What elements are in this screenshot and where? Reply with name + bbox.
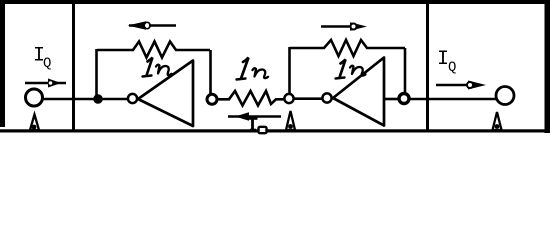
value label 1&#937; (feedback 1) xyxy=(143,58,172,77)
wire: A2 output to right terminal xyxy=(409,98,497,101)
resistor 1&#937; (feedback 1) xyxy=(97,42,210,58)
value label 1&#937; (series) xyxy=(237,58,269,80)
boundary line left (network box edge) xyxy=(72,3,75,131)
svg-text:Q: Q xyxy=(43,56,51,72)
junction dot xyxy=(93,94,103,104)
current arrow over feedback 1 (pointing left) xyxy=(128,21,177,29)
wire: center node to A2 input xyxy=(293,97,323,100)
op-amp A2 xyxy=(333,58,384,126)
node: A2 input circle xyxy=(322,93,331,102)
node: right terminal xyxy=(496,87,514,105)
current arrow over feedback 2 (pointing right) xyxy=(321,22,367,30)
current arrow I_Q (left) xyxy=(25,79,66,88)
arrow into bottom edge (left) xyxy=(30,115,39,131)
node: A1 output circle xyxy=(207,94,217,104)
node: left terminal xyxy=(26,89,43,106)
node: center circle (output node) xyxy=(284,94,293,103)
op-amp A1 xyxy=(138,61,193,127)
wire: feedback loop 1 left riser xyxy=(95,49,98,96)
current arrow I_o (pointing left) xyxy=(228,112,281,120)
wire: feedback loop 1 right drop xyxy=(209,50,212,95)
arrow into bottom edge (right) xyxy=(493,112,502,130)
value label 1&#937; (feedback 2) xyxy=(336,60,366,79)
wire: feedback loop 2 right drop xyxy=(404,48,407,95)
wire: A2 base to output circle xyxy=(384,98,400,101)
svg-text:Q: Q xyxy=(448,60,456,76)
node: A2 output circle xyxy=(399,94,409,104)
arrow into bottom edge (center) xyxy=(286,111,295,130)
resistor 1&#937; (series) xyxy=(217,91,285,106)
wire: feedback loop 2 left riser xyxy=(288,47,291,95)
current arrow I_Q (right) xyxy=(436,81,486,90)
wire: left terminal to A1 input xyxy=(43,98,130,101)
resistor 1&#937; (feedback 2) xyxy=(290,40,406,56)
node: A1 input circle xyxy=(128,94,137,103)
boundary line right (network box edge) xyxy=(426,3,429,131)
label I_o xyxy=(248,119,267,134)
